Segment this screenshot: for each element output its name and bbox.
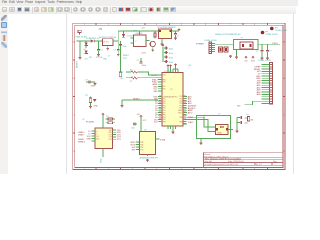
net labels mid column	[123, 55, 129, 60]
wire resonator out	[258, 44, 280, 46]
diode D1	[90, 38, 95, 43]
transistor T1	[150, 41, 155, 49]
svg-text:6: 6	[205, 168, 206, 170]
svg-text:100n: 100n	[169, 49, 173, 51]
capacitor C12	[237, 121, 248, 124]
wire input drop	[79, 41, 81, 57]
ground	[117, 54, 120, 57]
svg-text:LMV358: LMV358	[136, 33, 143, 35]
svg-text:5: 5	[181, 24, 182, 26]
power +5V header	[245, 56, 247, 58]
svg-text:PC1: PC1	[179, 99, 182, 101]
capacitor C10 cluster	[85, 80, 96, 88]
ground	[261, 57, 264, 60]
mcu pin number marks	[159, 96, 186, 124]
svg-text:22p: 22p	[245, 123, 248, 125]
resistor R3 cluster	[86, 95, 99, 108]
svg-text:4: 4	[156, 168, 157, 170]
mcu internal pin names right	[178, 96, 183, 123]
svg-text:VI VO: VI VO	[103, 41, 109, 43]
frame zone ticks top	[96, 23, 268, 25]
svg-text:+5V: +5V	[141, 28, 145, 30]
svg-text:XTAL2: XTAL2	[272, 42, 279, 45]
usb ic top wire	[102, 116, 104, 129]
svg-text:USBD−: USBD−	[78, 135, 86, 137]
svg-text:R?: R?	[86, 95, 89, 97]
svg-text:NCP1117ST50T3G: NCP1117ST50T3G	[99, 37, 116, 39]
svg-text:D+: D+	[96, 131, 98, 133]
wire reset column	[120, 41, 122, 72]
wire riser to +5V rail	[117, 31, 119, 41]
regulator ground	[106, 48, 109, 51]
capacitor C6	[164, 51, 173, 55]
svg-text:PD7: PD7	[163, 112, 166, 114]
net labels u6 supply	[137, 114, 147, 122]
svg-text:PD5: PD5	[163, 86, 166, 88]
svg-text:5: 5	[181, 168, 182, 170]
capacitor C16	[131, 123, 137, 130]
capacitor C5	[164, 47, 173, 51]
usb ic right pins	[113, 130, 117, 139]
net labels left of usb ic	[78, 132, 86, 144]
ground	[200, 142, 203, 145]
ground	[151, 49, 154, 52]
ic U6 body	[140, 132, 156, 155]
svg-text:PB3: PB3	[140, 142, 143, 144]
capacitor C15 on column	[119, 45, 122, 46]
wire u6 supply	[140, 118, 142, 132]
svg-text:TXD: TXD	[120, 78, 124, 80]
svg-text:PB7: PB7	[163, 82, 166, 84]
svg-text:C?: C?	[114, 50, 117, 52]
ic U6 internal pin names	[140, 142, 143, 152]
op-amp U2A LMV358	[131, 30, 150, 47]
svg-text:R?: R?	[130, 70, 132, 72]
diode D2b vertical	[85, 41, 88, 48]
svg-text:AD5: AD5	[257, 93, 262, 96]
svg-text:100n: 100n	[169, 58, 173, 60]
svg-text:GND: GND	[153, 91, 158, 93]
svg-text:CTS: CTS	[109, 137, 112, 139]
svg-text:Y?: Y?	[218, 114, 220, 116]
svg-text:C?: C?	[108, 56, 110, 58]
svg-text:XTAL2: XTAL2	[188, 121, 194, 124]
usb ic U5 body	[95, 128, 113, 149]
svg-text:RESET: RESET	[133, 98, 140, 100]
svg-text:3: 3	[132, 24, 133, 26]
power +3V3 header	[252, 56, 254, 58]
svg-text:PC0: PC0	[179, 96, 182, 98]
mcu right pin labels	[188, 95, 197, 124]
sheet frame outer border	[73, 23, 285, 169]
wire header bottom	[245, 101, 266, 105]
ic U6 right pin wire	[156, 138, 160, 140]
crystal wires	[187, 117, 233, 142]
ground	[172, 131, 175, 134]
svg-text:PD4: PD4	[163, 105, 166, 107]
frame zone ticks left and right	[73, 60, 285, 133]
ground	[235, 56, 238, 59]
svg-text:PD3: PD3	[163, 103, 166, 105]
resistor R5 crystal	[247, 115, 254, 122]
svg-text:KiCad E.D.A. kicad 4.0.7-e2-6: KiCad E.D.A. kicad 4.0.7-e2-6376~58	[204, 163, 238, 166]
svg-text:CONN_01X06: CONN_01X06	[204, 40, 218, 42]
svg-text:PB1: PB1	[163, 117, 166, 119]
svg-text:3: 3	[132, 168, 133, 170]
wire regulator output	[113, 40, 118, 42]
svg-text:GND: GND	[87, 138, 92, 140]
ground	[121, 105, 124, 108]
svg-text:CONN_01X01: CONN_01X01	[275, 30, 287, 32]
svg-text:GND: GND	[94, 106, 99, 108]
wire diode to regulator	[94, 40, 102, 42]
resistor R4 above usb ic	[106, 116, 116, 120]
svg-text:GND: GND	[91, 86, 96, 88]
svg-text:+3V3: +3V3	[141, 53, 147, 55]
svg-text:3V3: 3V3	[251, 61, 255, 63]
svg-text:PB3: PB3	[163, 122, 166, 124]
svg-text:FT232RL: FT232RL	[86, 122, 95, 124]
svg-text:1: 1	[84, 168, 85, 170]
diode D2 vertical	[84, 49, 88, 54]
power +5V above caps	[162, 44, 164, 46]
svg-text:PB5: PB5	[180, 122, 183, 124]
capacitor C9 near mcu	[137, 58, 146, 67]
svg-text:PB4: PB4	[140, 144, 143, 146]
rxd series resistor row	[120, 70, 159, 76]
+5V rail wire	[118, 30, 176, 32]
capacitor C8	[164, 60, 173, 64]
svg-text:U? LP2985-33DBVR: U? LP2985-33DBVR	[157, 27, 176, 29]
svg-text:C?: C?	[256, 51, 258, 53]
svg-text:PD2: PD2	[163, 101, 166, 103]
svg-text:100n: 100n	[169, 62, 173, 64]
ground	[146, 159, 149, 162]
svg-text:22p: 22p	[245, 118, 248, 120]
wire avcc top	[173, 68, 178, 70]
svg-text:Id: 1/1: Id: 1/1	[256, 164, 262, 166]
connector J2 body	[196, 40, 218, 54]
connector J3 pins	[262, 65, 270, 104]
power +5V	[102, 113, 104, 115]
resistor R1	[154, 31, 156, 39]
net label sprinkles	[89, 56, 110, 61]
svg-text:VCC AVCC: VCC AVCC	[164, 70, 173, 73]
svg-text:D11: D11	[154, 122, 157, 124]
svg-text:D−: D−	[96, 133, 98, 135]
svg-text:RTS: RTS	[117, 139, 122, 141]
svg-text:PC3: PC3	[179, 103, 182, 105]
svg-text:Rev:: Rev:	[273, 161, 278, 163]
svg-text:100n: 100n	[142, 65, 146, 67]
svg-text:GND: GND	[101, 158, 103, 163]
mcu internal pin names left	[163, 75, 166, 124]
node junction	[98, 40, 99, 41]
svg-text:16MHz: 16MHz	[217, 133, 222, 135]
svg-text:R?: R?	[130, 81, 132, 83]
regulator U3 LP2985 body	[155, 27, 179, 43]
ground	[97, 54, 100, 57]
capacitor C11	[237, 116, 248, 119]
title block	[204, 152, 284, 167]
ground caps	[236, 130, 239, 133]
mcu bottom pins	[168, 126, 176, 131]
svg-text:+5V: +5V	[137, 114, 141, 116]
svg-text:100n: 100n	[123, 46, 127, 48]
power flag PWR1	[78, 30, 81, 34]
svg-text:PC6: PC6	[140, 149, 143, 151]
capacitor C7	[164, 56, 173, 60]
mcu top pins	[168, 67, 178, 73]
svg-text:8: 8	[254, 24, 255, 26]
svg-text:C?: C?	[100, 50, 103, 52]
connector J2 pins	[212, 44, 216, 52]
svg-text:PB6: PB6	[163, 79, 166, 81]
svg-text:7: 7	[230, 24, 231, 26]
resistor R5b above usb ic	[106, 122, 116, 124]
svg-text:CONN_01X18: CONN_01X18	[258, 60, 272, 62]
ground	[229, 55, 232, 58]
capacitor C4 at reg output	[174, 31, 179, 38]
capacitor C13	[256, 45, 263, 57]
wire caps join	[236, 118, 238, 131]
ground	[174, 37, 177, 40]
svg-text:ATMEGA328P-PU: ATMEGA328P-PU	[164, 95, 179, 98]
power +5V mcu top	[167, 65, 169, 67]
svg-text:VCC: VCC	[143, 120, 147, 122]
svg-text:R? 10k: R? 10k	[96, 57, 102, 59]
svg-text:J?1: J?1	[99, 28, 104, 31]
svg-text:ATMEGA 328P-PU: ATMEGA 328P-PU	[140, 156, 159, 159]
ground	[79, 57, 82, 60]
wire VIN horizontal	[77, 40, 91, 42]
paper right edge	[293, 14, 295, 174]
svg-text:PC4: PC4	[179, 105, 182, 107]
ic U6 left labels	[131, 142, 137, 152]
svg-text:VIN: VIN	[89, 57, 93, 59]
mcu left pin labels	[151, 75, 158, 124]
svg-text:C?: C?	[177, 36, 179, 38]
power +3V3	[178, 29, 180, 31]
svg-text:Size: A4: Size: A4	[204, 160, 212, 163]
svg-text:SHIELD: SHIELD	[78, 142, 86, 144]
usb ic right labels	[117, 130, 122, 141]
svg-text:CONN_01X01: CONN_01X01	[266, 34, 278, 36]
capacitor C1 on input	[97, 41, 103, 54]
svg-text:+5V: +5V	[244, 61, 248, 63]
svg-text:CD1206: CD1206	[127, 36, 133, 38]
hole P2	[261, 31, 278, 36]
svg-text:1: 1	[84, 24, 85, 26]
svg-text:GND: GND	[103, 59, 108, 61]
svg-text:+5V: +5V	[188, 65, 192, 67]
svg-text:4: 4	[156, 24, 157, 26]
svg-text:DTR: DTR	[123, 58, 127, 60]
wire reset drop	[121, 100, 123, 105]
hole P1	[270, 27, 287, 32]
connector J3 net labels	[254, 67, 262, 97]
svg-text:8: 8	[254, 168, 255, 170]
wire caps bus vertical	[162, 47, 164, 62]
svg-text:PD6: PD6	[163, 89, 166, 91]
connector J3 body	[258, 60, 273, 104]
svg-text:PB0: PB0	[163, 115, 166, 117]
frame zone ticks bottom	[96, 168, 268, 170]
svg-text:POWER: POWER	[196, 44, 204, 46]
node junction	[140, 120, 141, 121]
svg-text:U?: U?	[82, 119, 85, 121]
capacitor C14	[266, 45, 271, 57]
svg-text:PB2: PB2	[163, 119, 166, 121]
node junctions on rail	[126, 30, 127, 31]
mcu left pins	[158, 75, 162, 122]
mcu right pins	[183, 97, 187, 125]
svg-text:AVCC: AVCC	[188, 111, 194, 114]
resistor R2 pullup	[119, 72, 121, 77]
resonator Y2	[215, 34, 253, 49]
ic U6 bottom wire	[147, 155, 149, 157]
usb ic left labels	[87, 131, 92, 141]
svg-text:C?: C?	[269, 51, 271, 53]
svg-text:RXD: RXD	[120, 72, 124, 74]
svg-text:7: 7	[230, 168, 231, 170]
svg-text:PC2: PC2	[179, 101, 182, 103]
diode D3 on rail	[122, 31, 133, 38]
power +5V avcc	[175, 64, 177, 66]
svg-text:C?: C?	[85, 80, 88, 82]
svg-text:100n: 100n	[131, 128, 135, 130]
sheet frame inner border	[75, 25, 283, 167]
svg-text:100n: 100n	[169, 53, 173, 55]
svg-text:1M: 1M	[251, 120, 254, 122]
svg-text:PD5: PD5	[163, 108, 166, 110]
svg-text:XUSB: XUSB	[160, 139, 166, 141]
svg-text:2: 2	[108, 168, 109, 170]
graphic box crystal	[197, 116, 231, 139]
paper left edge	[66, 14, 68, 174]
svg-text:+−: +−	[135, 41, 138, 43]
svg-text:PD6: PD6	[163, 110, 166, 112]
wire to resonator box	[215, 44, 234, 46]
svg-text:6: 6	[205, 24, 206, 26]
usb ic left pins	[92, 131, 96, 141]
power +5V u6	[140, 115, 142, 117]
usb ic internal pin names	[96, 131, 100, 141]
svg-text:PB5: PB5	[140, 147, 143, 149]
svg-text:PC6: PC6	[163, 75, 166, 77]
svg-text:RTS: RTS	[109, 139, 112, 141]
graphic box resonator	[234, 40, 259, 50]
txd series resistor row	[120, 77, 159, 84]
svg-text:16MHz CSTCE16M0V53-R0: 16MHz CSTCE16M0V53-R0	[215, 34, 241, 36]
frame zone letters	[73, 24, 285, 170]
regulator U1 NCP1117	[99, 37, 116, 48]
svg-text:C?: C?	[137, 60, 140, 62]
capacitor C2 on output	[114, 41, 120, 54]
crystal Y1 body	[216, 125, 229, 135]
bridge component	[219, 47, 229, 52]
svg-text:Date: 2019-05-02: Date: 2019-05-02	[228, 160, 244, 163]
svg-text:PC5: PC5	[179, 108, 182, 110]
ic U6 left pins	[136, 142, 140, 150]
svg-text:RESET: RESET	[77, 61, 79, 68]
svg-text:+5V: +5V	[84, 59, 88, 61]
mcu U4 body	[162, 73, 183, 127]
svg-text:RST: RST	[132, 149, 137, 151]
svg-text:PB4: PB4	[180, 117, 183, 119]
svg-text:N/C: N/C	[237, 106, 241, 108]
reset wire	[122, 99, 158, 101]
ground	[161, 43, 164, 46]
svg-text:RESET: RESET	[123, 55, 129, 57]
svg-text:PD1: PD1	[163, 99, 166, 101]
ground	[266, 57, 269, 60]
wire resonator drop	[236, 50, 238, 57]
svg-text:2: 2	[108, 24, 109, 26]
usb ic bottom wire	[102, 149, 104, 158]
